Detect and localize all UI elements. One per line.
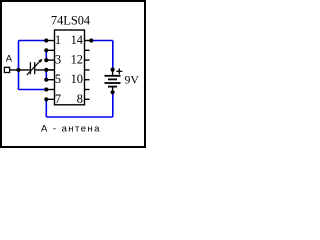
wire battery bottom up	[112, 92, 114, 117]
wire pin1 to left bus	[19, 40, 47, 42]
pin 14 stub	[85, 40, 92, 42]
svg-text:74LS04: 74LS04	[51, 14, 90, 28]
svg-text:9V: 9V	[125, 73, 140, 87]
svg-text:1: 1	[55, 33, 61, 47]
capacitor C1 arrow	[27, 61, 40, 75]
wire bottom rail	[46, 116, 113, 118]
node pin6 junction	[44, 87, 48, 91]
pin 12 stub	[85, 59, 90, 61]
battery BT1 top dot	[111, 68, 115, 72]
battery BT1 plate long 1	[105, 75, 121, 77]
node pin14 junction	[89, 38, 93, 42]
pin 5 stub	[46, 79, 54, 81]
pin 2 stub	[46, 49, 54, 51]
svg-text:10: 10	[71, 72, 83, 86]
pin 6 stub	[46, 89, 54, 91]
node pin1 junction	[44, 38, 48, 42]
pin 3 stub	[46, 59, 54, 61]
capacitor C1 variable right plate	[34, 62, 36, 74]
wire pin2 to pin3	[45, 50, 47, 60]
node pin3 junction	[44, 58, 48, 62]
node antenna bus junction	[16, 68, 20, 72]
IC U1 74LS04 body	[55, 30, 85, 105]
wire left bus vertical	[18, 41, 20, 90]
wire pin14 to right	[91, 40, 113, 42]
svg-text:3: 3	[55, 52, 61, 66]
node pin5 junction	[44, 78, 48, 82]
battery BT1 plate long 2	[105, 82, 121, 84]
svg-text:А - антена: А - антена	[41, 124, 101, 135]
battery BT1 bottom dot	[111, 90, 115, 94]
battery BT1 plate short 2	[108, 86, 117, 88]
node pin7 junction	[44, 97, 48, 101]
pin 4 stub	[46, 69, 54, 71]
wire capacitor to pin4	[35, 69, 54, 71]
node pin4 junction	[44, 68, 48, 72]
pin 1 stub	[46, 40, 54, 42]
battery plus sign	[116, 70, 122, 72]
wire antenna to capacitor	[10, 69, 30, 71]
wire pin4 to pin5	[45, 70, 47, 80]
svg-text:12: 12	[71, 52, 83, 66]
svg-text:8: 8	[77, 92, 83, 106]
battery BT1 top lead	[112, 70, 114, 76]
pin 13 stub	[85, 49, 90, 51]
antenna terminal square	[4, 67, 9, 72]
pin 9 stub	[85, 89, 90, 91]
capacitor C1 variable left plate	[29, 62, 31, 74]
battery BT1 plate short 1	[108, 78, 117, 80]
pin 11 stub	[85, 69, 90, 71]
wire pin7 down	[45, 99, 47, 117]
wire left bus to pin6	[19, 89, 47, 91]
svg-text:5: 5	[55, 72, 61, 86]
wire battery top vertical	[112, 41, 114, 70]
svg-text:А: А	[6, 53, 13, 64]
node pin2 junction	[44, 48, 48, 52]
pin 10 stub	[85, 79, 90, 81]
svg-text:14: 14	[71, 33, 83, 47]
pin 7 stub	[46, 98, 54, 100]
svg-text:7: 7	[55, 92, 61, 106]
pin 8 stub	[85, 98, 90, 100]
border frame	[1, 1, 145, 147]
battery BT1 bottom lead	[112, 87, 114, 93]
